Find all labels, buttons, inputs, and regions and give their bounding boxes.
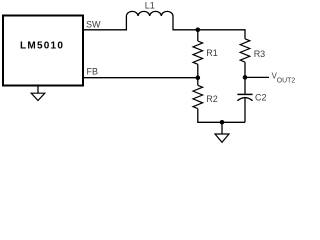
svg-text:R2: R2 (206, 94, 218, 104)
svg-text:L1: L1 (145, 1, 155, 11)
svg-text:R1: R1 (206, 48, 218, 58)
svg-text:R3: R3 (254, 49, 266, 59)
svg-text:LM5010: LM5010 (20, 41, 64, 52)
svg-text:C2: C2 (255, 93, 267, 103)
svg-text:VOUT2: VOUT2 (272, 71, 296, 84)
svg-text:SW: SW (86, 19, 101, 29)
svg-text:FB: FB (87, 66, 99, 76)
